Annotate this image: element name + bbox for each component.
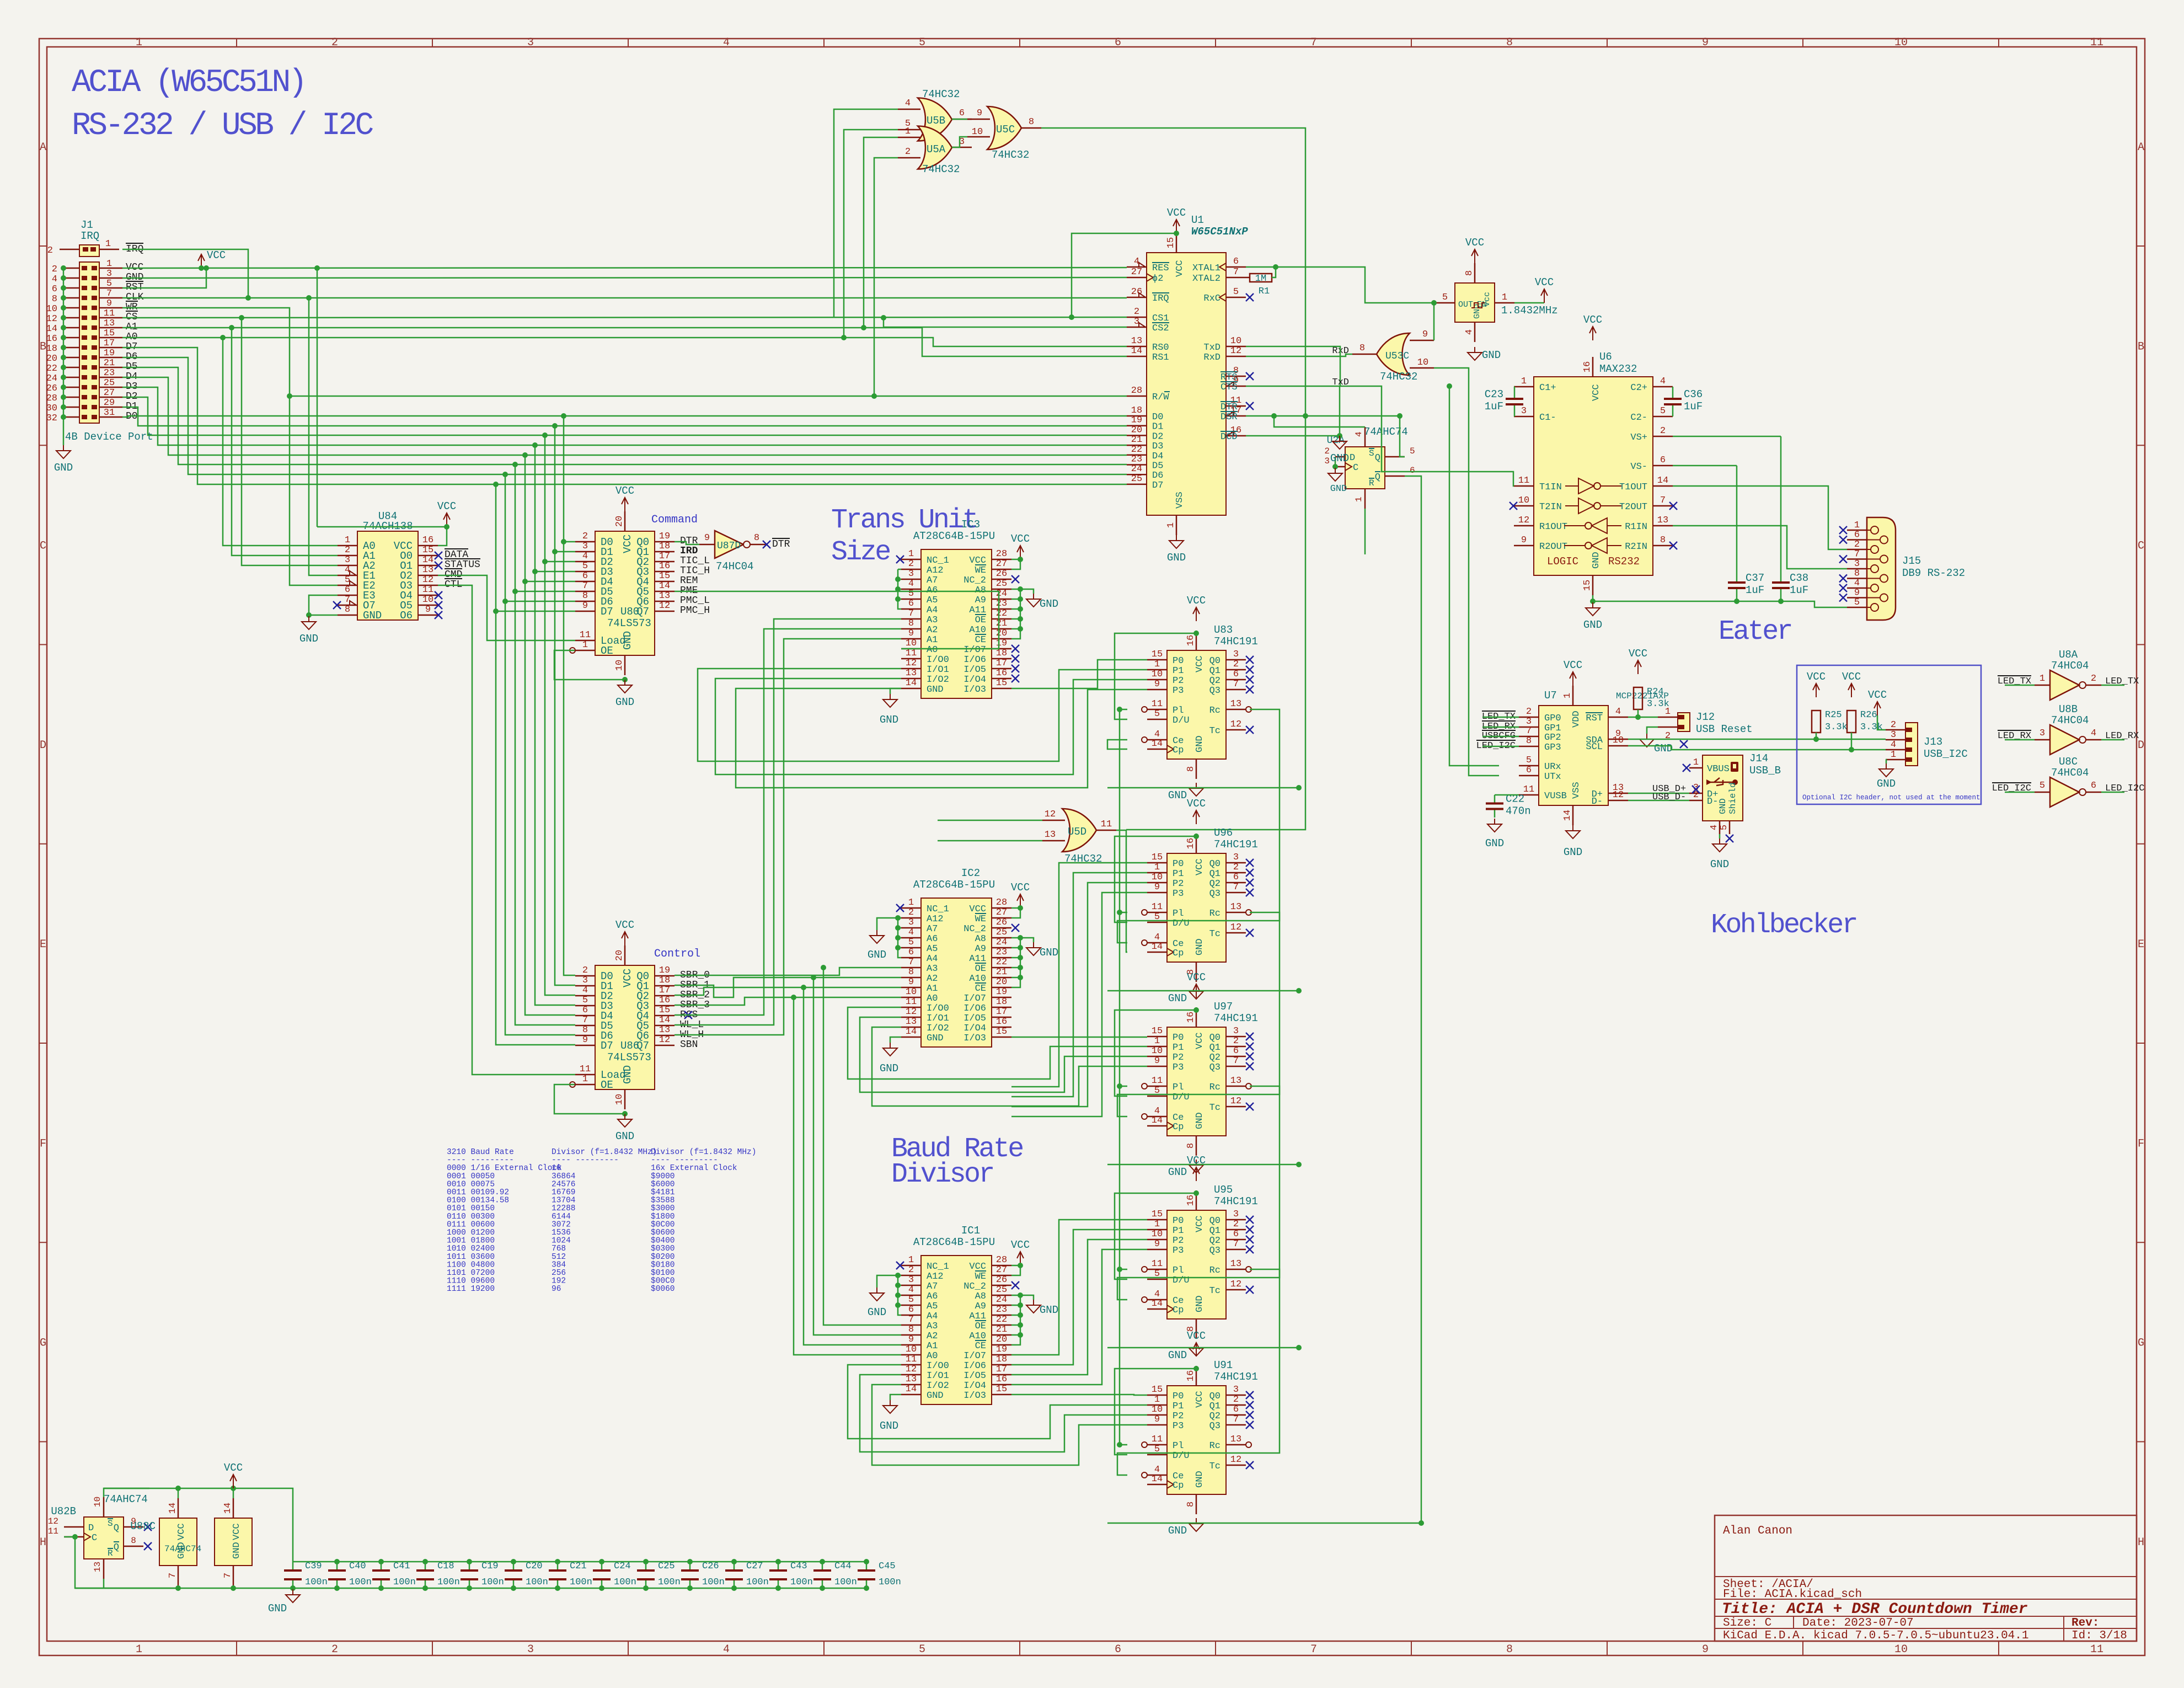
svg-text:I/O1: I/O1 [927, 665, 949, 675]
U96 pin 11 Pl [1147, 912, 1167, 914]
svg-text:GP2: GP2 [1544, 733, 1561, 743]
IC3 pin 13 I/O2 [901, 678, 921, 680]
svg-text:9: 9 [1702, 1643, 1709, 1656]
svg-text:P3: P3 [1173, 1421, 1184, 1431]
svg-text:1101 07200: 1101 07200 [447, 1269, 495, 1278]
svg-text:0111 00600: 0111 00600 [447, 1220, 495, 1229]
U86 pin 6 D4 [575, 1015, 595, 1017]
svg-text:100n: 100n [437, 1577, 460, 1588]
svg-text:OE: OE [975, 1321, 986, 1332]
svg-text:VCC: VCC [1187, 971, 1206, 984]
svg-text:100n: 100n [305, 1577, 328, 1588]
svg-text:VCC: VCC [176, 1523, 187, 1540]
svg-text:6: 6 [582, 1005, 588, 1016]
U80 pin 13 Q6 [655, 601, 675, 602]
U1 pin 23 D5 [1127, 464, 1147, 466]
svg-text:D2: D2 [1152, 431, 1163, 442]
svg-text:9: 9 [908, 977, 914, 987]
svg-text:2: 2 [1324, 446, 1330, 456]
svg-text:5: 5 [1233, 287, 1239, 297]
wire U1 RxD to U53C out [1246, 354, 1352, 356]
svg-text:VCC: VCC [1195, 1032, 1205, 1049]
svg-text:24576: 24576 [552, 1180, 576, 1189]
svg-text:0011 00109.92: 0011 00109.92 [447, 1188, 509, 1197]
svg-text:13: 13 [1230, 699, 1241, 709]
U1 pin 12 RxD [1226, 356, 1246, 357]
svg-text:1: 1 [908, 898, 914, 908]
svg-text:P1: P1 [1173, 1226, 1184, 1236]
svg-text:R25: R25 [1825, 710, 1842, 720]
svg-text:13: 13 [906, 1017, 917, 1027]
svg-text:F: F [2138, 1137, 2144, 1150]
J14 pin 4 GND [1719, 821, 1721, 834]
svg-text:GND: GND [927, 1391, 944, 1401]
svg-text:Q1: Q1 [1209, 1401, 1221, 1412]
IC3 pin 22 OE [992, 618, 1011, 620]
svg-text:20: 20 [996, 977, 1007, 987]
svg-text:11: 11 [104, 308, 115, 319]
svg-text:C41: C41 [393, 1561, 410, 1572]
svg-text:C: C [2138, 540, 2144, 553]
U83 pin 14 Cp [1147, 749, 1167, 750]
svg-text:12: 12 [1230, 1455, 1241, 1465]
svg-text:---- ---------: ---- --------- [447, 1156, 514, 1165]
svg-text:7: 7 [582, 581, 588, 591]
svg-text:Divisor (f=1.8432 MHz): Divisor (f=1.8432 MHz) [651, 1148, 756, 1157]
svg-text:NC_1: NC_1 [927, 555, 949, 566]
U83 pin 4 Ce [1147, 739, 1167, 741]
svg-text:19: 19 [996, 638, 1007, 649]
wire U86 SBR_3 to IC2 A0 [675, 997, 901, 1005]
U96 pin 8 GND [1196, 962, 1197, 982]
U84 pin 11 O4 [418, 595, 438, 596]
J2 pin 16 (left) [63, 337, 79, 339]
svg-text:I/O6: I/O6 [963, 655, 986, 665]
U80 pin 19 Q0 [655, 541, 675, 543]
J2 pin 28 (left) [63, 397, 79, 398]
svg-text:8: 8 [131, 1536, 136, 1546]
svg-text:Optional I2C header, not used: Optional I2C header, not used at the mom… [1802, 794, 1980, 802]
X1 EN to VCC [1514, 302, 1544, 304]
U91 power VCC [1196, 1343, 1197, 1356]
svg-text:P3: P3 [1173, 889, 1184, 899]
U7 ground [1572, 825, 1573, 831]
svg-text:I/O4: I/O4 [963, 1381, 986, 1391]
svg-text:GP0: GP0 [1544, 713, 1561, 724]
svg-text:$0060: $0060 [651, 1285, 675, 1294]
svg-text:A6: A6 [927, 1291, 938, 1302]
wire U5D output down to U96 Cp [1116, 830, 1127, 952]
svg-text:U53C: U53C [1385, 351, 1409, 362]
svg-text:30: 30 [46, 403, 57, 414]
U84 pin 2 A1 [338, 555, 357, 557]
U6 pin 7 T2OUT [1653, 505, 1673, 507]
IC1 pin 5 A5 [901, 1305, 921, 1306]
wire U86 WL_L up to IC3 A2 [675, 629, 901, 1015]
svg-text:10: 10 [614, 660, 625, 671]
U82B clock from left [64, 1536, 75, 1538]
svg-text:6: 6 [345, 585, 350, 595]
U97 pin 8 GND [1196, 1136, 1197, 1156]
svg-text:18: 18 [996, 1354, 1007, 1365]
svg-text:23: 23 [996, 1305, 1007, 1315]
svg-text:26: 26 [1131, 287, 1142, 297]
wire CS1 to VCC [1069, 314, 1074, 320]
svg-text:U87D: U87D [717, 541, 741, 552]
svg-text:VDD: VDD [1571, 711, 1582, 728]
svg-text:Q3: Q3 [1209, 889, 1221, 899]
wire data bit D3 [122, 387, 1127, 445]
svg-text:IRD: IRD [680, 546, 698, 557]
svg-text:USB_I2C: USB_I2C [1924, 748, 1968, 760]
svg-text:R1IN: R1IN [1625, 522, 1647, 532]
U1 pin 17 DSR [1226, 415, 1246, 417]
IC2 pin 15 I/O3 [992, 1037, 1011, 1038]
svg-text:1: 1 [582, 640, 588, 650]
svg-text:A7: A7 [927, 924, 938, 934]
U80 74LS573 latch body [595, 531, 655, 655]
U96 power VCC [1196, 811, 1197, 824]
svg-text:P1: P1 [1173, 1401, 1184, 1412]
U83 power VCC [1196, 608, 1197, 621]
blue box optional I2C header [1797, 665, 1981, 804]
svg-text:18: 18 [659, 975, 670, 986]
svg-text:GND: GND [268, 1602, 287, 1615]
IC3 pin 19 I/O7 [992, 648, 1011, 650]
svg-text:22: 22 [46, 364, 57, 374]
wire ground rail below counter 1 [1107, 990, 1299, 992]
capacitor C44 100n [822, 1562, 823, 1571]
svg-text:A0: A0 [927, 1351, 938, 1361]
svg-text:D3: D3 [1152, 441, 1163, 452]
svg-text:I/O5: I/O5 [963, 1013, 986, 1024]
cap rail top wire [293, 1561, 866, 1563]
J13 pin2 VCC [1877, 715, 1886, 730]
svg-text:U5B: U5B [927, 115, 945, 127]
svg-text:GND: GND [1040, 1304, 1058, 1316]
svg-text:15: 15 [996, 1384, 1007, 1395]
resistor R24 3.3k [1634, 687, 1642, 709]
J2 pin 29 D1 [99, 407, 122, 408]
IC2 GND pin14 [890, 1037, 901, 1043]
svg-text:VBUS: VBUS [1707, 764, 1730, 774]
svg-text:2: 2 [1660, 426, 1666, 436]
U80 pin 17 Q2 [655, 561, 675, 563]
IC3 pin 12 I/O1 [901, 668, 921, 670]
svg-text:27: 27 [996, 1265, 1007, 1275]
U96 ground [1196, 986, 1197, 991]
svg-text:6: 6 [908, 1305, 914, 1315]
svg-text:U91: U91 [1214, 1359, 1233, 1371]
wire VCC to D/U counter 1 [1115, 836, 1196, 922]
svg-text:9: 9 [425, 605, 431, 615]
svg-text:9: 9 [1422, 329, 1428, 340]
svg-text:13: 13 [1131, 336, 1142, 346]
U91 ground [1196, 1518, 1197, 1524]
J13 pin 4 [1886, 749, 1905, 751]
svg-text:I/O3: I/O3 [963, 685, 986, 695]
svg-text:4: 4 [908, 579, 914, 589]
svg-text:3: 3 [582, 975, 588, 986]
svg-text:S: S [1369, 448, 1374, 458]
svg-text:23: 23 [996, 599, 1007, 609]
U95 pin 1 P1 [1147, 1229, 1167, 1231]
svg-text:9: 9 [582, 1035, 588, 1045]
IC3 pin 20 CE [992, 638, 1011, 640]
svg-text:11: 11 [906, 1354, 917, 1365]
svg-text:A6: A6 [927, 934, 938, 944]
svg-text:8: 8 [582, 1025, 588, 1035]
U80 pin 16 Q3 [655, 571, 675, 573]
U84 pin 10 O5 [418, 605, 438, 606]
or-gate U5D 74HC32 [1062, 809, 1096, 852]
svg-text:2: 2 [582, 965, 588, 976]
svg-text:A3: A3 [927, 1321, 938, 1332]
svg-text:TIC_L: TIC_L [680, 555, 710, 567]
IC3 pin 24 A9 [992, 599, 1011, 600]
svg-text:2: 2 [908, 1265, 914, 1275]
svg-text:A: A [40, 141, 46, 154]
svg-text:11: 11 [580, 630, 591, 640]
svg-text:2: 2 [905, 147, 911, 157]
svg-text:Q3: Q3 [1209, 1062, 1221, 1073]
capacitor C36 1uF [1672, 387, 1674, 399]
svg-text:I/O2: I/O2 [927, 675, 949, 685]
svg-text:9: 9 [582, 601, 588, 611]
svg-text:Kohlbecker: Kohlbecker [1711, 910, 1856, 941]
svg-text:---- ---------: ---- --------- [552, 1156, 619, 1165]
J2 pin 19 D6 [99, 357, 122, 359]
svg-text:1: 1 [1693, 757, 1699, 768]
svg-text:16: 16 [422, 535, 433, 546]
svg-text:A1: A1 [927, 1341, 938, 1352]
U80 pin 10 GND [624, 655, 626, 675]
svg-text:17: 17 [996, 1364, 1007, 1375]
svg-text:GND: GND [1168, 789, 1187, 802]
global Pl vertical [1119, 709, 1121, 1445]
svg-text:D7: D7 [601, 606, 613, 618]
svg-text:1: 1 [1665, 707, 1671, 717]
U80 pin 11 Load [575, 640, 595, 642]
wire data bit D5 [122, 367, 1127, 464]
U1 pin 3 CS2 [1127, 327, 1147, 328]
svg-text:R1: R1 [1259, 286, 1270, 297]
U96 pin 10 P2 [1147, 882, 1167, 884]
U80 pin 3 D1 [575, 551, 595, 553]
J14 ground [1719, 834, 1721, 838]
svg-text:WE: WE [975, 565, 986, 576]
svg-text:VCC: VCC [1195, 1215, 1205, 1232]
U1 pin 18 D0 [1127, 415, 1147, 417]
wire data bit D1 [122, 407, 1127, 426]
svg-text:0100 00134.58: 0100 00134.58 [447, 1196, 509, 1205]
svg-text:GND: GND [1040, 598, 1058, 610]
svg-text:U1: U1 [1191, 214, 1204, 226]
svg-text:10: 10 [1894, 36, 1908, 49]
svg-text:25: 25 [996, 927, 1007, 938]
svg-text:I/O2: I/O2 [927, 1381, 949, 1391]
IC1 pin 3 A7 [901, 1285, 921, 1286]
svg-text:5: 5 [908, 589, 914, 599]
svg-text:I/O0: I/O0 [927, 1361, 949, 1371]
svg-text:MAX232: MAX232 [1599, 363, 1637, 375]
svg-text:GND: GND [1168, 1166, 1187, 1178]
svg-text:P2: P2 [1173, 1053, 1184, 1063]
svg-text:I/O7: I/O7 [963, 993, 986, 1004]
U83 pin 2 Q1 [1226, 669, 1246, 671]
power VCC bottom rail [233, 1475, 234, 1488]
U1 pin 15 VCC top [1176, 233, 1177, 253]
IC1 pin 25 A8 [992, 1295, 1011, 1296]
svg-text:7: 7 [223, 1573, 233, 1578]
svg-text:P1: P1 [1173, 869, 1184, 879]
svg-text:8: 8 [754, 533, 759, 543]
svg-text:D-: D- [1592, 797, 1603, 807]
U6 pin 9 R2OUT [1514, 545, 1534, 547]
svg-text:100n: 100n [614, 1577, 636, 1588]
svg-text:11: 11 [422, 585, 433, 595]
svg-text:20: 20 [614, 950, 625, 961]
IC2 pin 11 I/O0 [901, 1007, 921, 1008]
svg-text:14: 14 [223, 1503, 233, 1514]
IC2 pin 12 I/O1 [901, 1017, 921, 1018]
svg-text:VCC: VCC [615, 485, 634, 497]
svg-text:20: 20 [614, 516, 625, 527]
J13 pin 3 [1886, 739, 1905, 741]
svg-text:15: 15 [1152, 649, 1163, 660]
J2 pin 20 (left) [63, 357, 79, 359]
svg-text:File: ACIA.kicad_sch: File: ACIA.kicad_sch [1723, 1588, 1862, 1601]
svg-text:3: 3 [1233, 852, 1239, 863]
J2 pin 6 (left) [63, 287, 79, 289]
IC1 pin 23 A11 [992, 1315, 1011, 1316]
svg-text:I/O3: I/O3 [963, 1391, 986, 1401]
svg-text:28: 28 [996, 549, 1007, 559]
IC3 pin 6 A4 [901, 608, 921, 610]
svg-text:74HC191: 74HC191 [1214, 838, 1258, 851]
J15 pin 3 [1847, 568, 1867, 570]
svg-text:VCC: VCC [1535, 276, 1554, 289]
U96 pin 1 P1 [1147, 872, 1167, 874]
svg-text:1: 1 [1154, 1219, 1160, 1230]
capacitor C38 1uF [1780, 436, 1782, 583]
svg-text:3: 3 [908, 917, 914, 928]
svg-text:Cp: Cp [1173, 1305, 1184, 1316]
wire Pl tie counter 3 [1120, 1269, 1127, 1270]
or-gate U5C 74HC32 [987, 106, 1021, 149]
svg-text:RS1: RS1 [1152, 352, 1169, 363]
svg-text:2: 2 [52, 264, 57, 275]
IC3 pin 28 VCC [992, 559, 1011, 560]
svg-text:J14: J14 [1749, 752, 1768, 765]
svg-text:6: 6 [2091, 781, 2096, 791]
svg-text:2: 2 [1233, 659, 1239, 670]
J2 pin 22 (left) [63, 367, 79, 368]
svg-text:G: G [2138, 1337, 2144, 1350]
svg-text:12: 12 [48, 1516, 58, 1526]
svg-text:RS-232 / USB / I2C: RS-232 / USB / I2C [72, 108, 373, 144]
J2 pin 18 (left) [63, 347, 79, 349]
svg-text:20: 20 [46, 354, 57, 364]
svg-text:14: 14 [1131, 346, 1142, 356]
svg-text:27: 27 [104, 388, 115, 398]
U84 pin 6 E3 [338, 595, 357, 596]
svg-text:3: 3 [1233, 1385, 1239, 1395]
U95 pin 6 Q2 [1226, 1239, 1246, 1241]
U80 pin 18 Q1 [655, 551, 675, 553]
svg-text:1: 1 [106, 259, 112, 269]
IC3 pin 25 A8 [992, 589, 1011, 590]
wires IC1 I/O0-2 loops to U91 P1-P3 [848, 1365, 1147, 1439]
svg-text:3: 3 [527, 1643, 534, 1656]
svg-text:Alan Canon: Alan Canon [1723, 1525, 1792, 1537]
svg-text:GND: GND [1485, 837, 1504, 850]
svg-text:100n: 100n [834, 1577, 857, 1588]
wire WR row to U84 E2 and R/W [122, 308, 338, 585]
or-gate U5A 74HC32 [918, 126, 952, 169]
svg-text:8: 8 [345, 605, 350, 615]
svg-text:10: 10 [93, 1497, 103, 1507]
svg-text:9: 9 [1154, 1239, 1160, 1249]
U6 pin 14 T1OUT [1653, 485, 1673, 487]
svg-text:12: 12 [1230, 1096, 1241, 1107]
U91 pin 13 Rc [1226, 1444, 1246, 1446]
svg-text:12: 12 [1230, 346, 1241, 356]
svg-text:4: 4 [2091, 728, 2096, 739]
svg-text:28: 28 [996, 1255, 1007, 1265]
svg-text:GND: GND [868, 949, 886, 961]
svg-text:18: 18 [996, 997, 1007, 1007]
svg-text:13: 13 [659, 591, 670, 601]
capacitor C39 100n [292, 1562, 294, 1571]
U1 pin 11 DTR [1226, 405, 1246, 407]
wire XTAL1 to X1 OUT [1246, 267, 1435, 303]
svg-text:8: 8 [582, 591, 588, 601]
IC3 pin 1 NC_1 [901, 559, 921, 560]
IC2 A8 to GND [1011, 938, 1034, 942]
wire D2 drop to latches [545, 435, 575, 995]
svg-text:3: 3 [345, 555, 350, 565]
IC1 pin 2 A12 [901, 1275, 921, 1276]
svg-text:7: 7 [1233, 267, 1239, 277]
J2 pin 27 D2 [99, 397, 122, 398]
U86 OE to GND loop [554, 1085, 625, 1114]
svg-text:15: 15 [996, 678, 1007, 688]
svg-text:4: 4 [1891, 740, 1896, 750]
svg-text:UTx: UTx [1544, 772, 1561, 782]
svg-text:USB_D-: USB_D- [1652, 792, 1686, 803]
svg-text:28: 28 [996, 898, 1007, 908]
capacitor C37 1uF [1736, 466, 1738, 583]
U86 pin 18 Q1 [655, 985, 675, 987]
svg-text:VCC: VCC [1629, 648, 1647, 660]
svg-text:DB9 RS-232: DB9 RS-232 [1902, 567, 1965, 579]
svg-text:I/O7: I/O7 [963, 645, 986, 655]
U1 pin 19 D1 [1127, 425, 1147, 426]
J2 pin 24 (left) [63, 377, 79, 378]
svg-text:A3: A3 [927, 615, 938, 626]
U6 pin 6 VS- [1653, 465, 1673, 467]
wire VCC feed to U84 [317, 526, 447, 528]
U84 pin 8 GND [338, 615, 357, 616]
svg-text:B: B [40, 340, 46, 353]
svg-text:SCL: SCL [1586, 742, 1603, 752]
svg-text:100n: 100n [702, 1577, 725, 1588]
U86 pin 13 Q6 [655, 1035, 675, 1037]
svg-text:19: 19 [104, 348, 115, 359]
svg-text:7: 7 [1233, 1056, 1239, 1066]
svg-text:0010 00075: 0010 00075 [447, 1180, 495, 1189]
